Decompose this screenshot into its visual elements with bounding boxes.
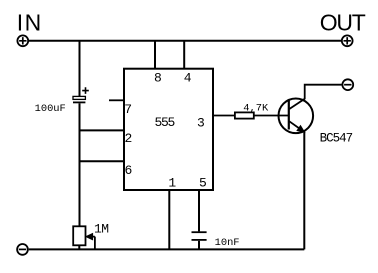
- wire R1 to base: [254, 115, 289, 117]
- transistor Q1 base bar: [288, 100, 290, 130]
- wire top rail to C1: [79, 41, 81, 97]
- capacitor C2 bottom plate: [192, 239, 207, 241]
- label OUT: [320, 9, 366, 35]
- wire pin 1 to bottom rail: [168, 190, 170, 249]
- transistor Q1 emitter stroke with arrow: [289, 121, 304, 132]
- wire pin 5 to C2: [198, 190, 200, 231]
- potentiometer R2 wiper arrow: [86, 234, 95, 250]
- pin 7 stub: [109, 99, 124, 101]
- capacitor C2 top plate: [192, 231, 207, 233]
- svg-text:5: 5: [199, 175, 207, 190]
- wire node to pin 2: [79, 129, 125, 131]
- svg-text:10nF: 10nF: [215, 237, 240, 249]
- capacitor C1 bottom plate: [73, 101, 85, 103]
- svg-text:BC547: BC547: [320, 132, 353, 146]
- label BC547: [320, 132, 353, 146]
- svg-text:IN: IN: [17, 10, 43, 36]
- terminal - (bottom-left): [17, 244, 28, 255]
- resistor R1 4,7K body: [235, 112, 254, 118]
- pin 1 label: [168, 175, 176, 190]
- svg-text:2: 2: [125, 131, 133, 146]
- wire collector to - terminal: [305, 85, 342, 100]
- capacitor C1 top plate: [73, 96, 85, 99]
- label 1M: [94, 221, 108, 236]
- svg-text:7: 7: [124, 102, 132, 117]
- svg-text:100uF: 100uF: [35, 103, 66, 115]
- svg-text:555: 555: [155, 115, 175, 130]
- svg-text:4,7K: 4,7K: [243, 103, 269, 115]
- label 555: [155, 115, 175, 130]
- terminal + (top-right output): [342, 35, 353, 46]
- pin 8 label: [154, 70, 162, 85]
- pin 7 label: [124, 102, 132, 117]
- wire pin 3 to R1: [213, 115, 235, 117]
- terminal + (top-left input): [17, 35, 28, 46]
- wire top rail: [29, 40, 341, 42]
- wire emitter to bottom rail: [303, 132, 305, 250]
- wire R2 to bottom rail: [78, 245, 80, 249]
- svg-text:3: 3: [197, 116, 205, 131]
- svg-text:8: 8: [154, 70, 162, 85]
- svg-text:OUT: OUT: [320, 9, 366, 35]
- transistor Q1 circle: [279, 99, 314, 134]
- transistor Q1 collector stroke: [289, 99, 305, 109]
- label IN: [17, 10, 43, 36]
- wire bottom rail: [29, 248, 305, 250]
- pin 6 label: [125, 163, 133, 178]
- wire C2 to bottom rail: [198, 241, 200, 250]
- pin 3 label: [197, 116, 205, 131]
- svg-text:4: 4: [184, 70, 192, 85]
- potentiometer R2 1M body: [73, 226, 85, 245]
- wire pin 8 to top rail: [154, 41, 156, 69]
- pin 2 label: [125, 131, 133, 146]
- wire node to pin 6: [79, 160, 125, 162]
- capacitor C1 100uF polarity +: [82, 87, 89, 94]
- label 4,7K: [243, 103, 269, 115]
- terminal - (right, collector output): [342, 79, 353, 90]
- svg-text:1M: 1M: [94, 221, 108, 236]
- op-amp U1 555 body: [124, 69, 213, 190]
- pin 5 label: [199, 175, 207, 190]
- pin 4 label: [184, 70, 192, 85]
- wire C1 to potentiometer: [79, 103, 81, 226]
- svg-text:1: 1: [168, 175, 176, 190]
- svg-text:6: 6: [125, 163, 133, 178]
- label 10nF: [215, 237, 240, 249]
- label 100uF: [35, 103, 66, 115]
- wire pin 4 to top rail: [183, 41, 185, 69]
